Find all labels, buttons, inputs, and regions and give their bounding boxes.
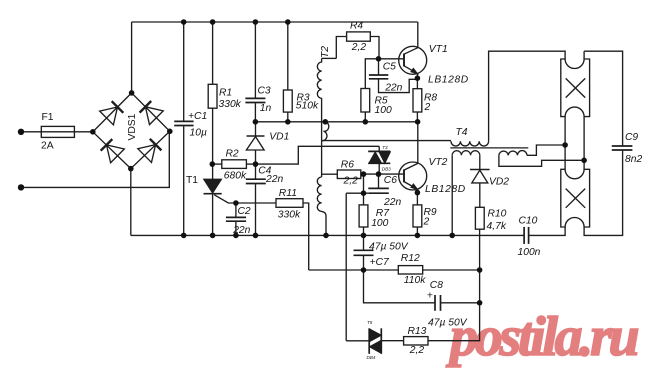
svg-text:22n: 22n	[383, 197, 401, 208]
diac T3	[368, 146, 390, 174]
resistor R8	[413, 78, 422, 122]
diode VD1	[246, 122, 264, 164]
wire VT2 base line	[364, 173, 405, 175]
svg-text:T5: T5	[367, 320, 373, 325]
svg-text:T4: T4	[456, 127, 468, 138]
wire VT1 collector drop	[417, 22, 419, 48]
svg-text:VD2: VD2	[489, 177, 509, 188]
svg-text:VD1: VD1	[269, 131, 289, 142]
resistor R5	[361, 59, 379, 122]
svg-text:DB3: DB3	[382, 166, 391, 171]
svg-text:+C7: +C7	[370, 257, 390, 268]
svg-text:22n: 22n	[265, 174, 283, 185]
wire VD1 node to diac T3	[256, 146, 380, 164]
transistor VT1	[379, 46, 427, 78]
capacitor C7	[354, 235, 374, 270]
transformer T4 winding B	[452, 151, 480, 156]
svg-text:100: 100	[375, 105, 392, 116]
transformer T2 top lead	[322, 57, 337, 59]
svg-text:C10: C10	[519, 215, 538, 226]
lamp filament box upper	[561, 59, 590, 117]
svg-text:VT2: VT2	[429, 157, 448, 168]
diode bridge top-right	[139, 100, 164, 125]
resistor R1	[208, 22, 217, 164]
wire lamp inner left	[564, 117, 566, 170]
svg-text:T2: T2	[320, 46, 331, 58]
wire winding C left to node B	[499, 155, 584, 166]
lamp filament box lower	[561, 169, 590, 227]
wire T4 winding B left to rail	[451, 155, 453, 235]
resistor R3	[283, 22, 292, 122]
wire winding C right to node A	[527, 145, 565, 155]
svg-text:R1: R1	[219, 87, 232, 98]
svg-text:+C1: +C1	[188, 111, 207, 122]
resistor R4	[336, 32, 379, 59]
wire input line 1	[23, 131, 93, 133]
wire T2 to T4 primary	[322, 140, 451, 142]
svg-text:C8: C8	[430, 280, 443, 291]
wire mid rail (C3 bottom to R8 bottom)	[255, 121, 417, 123]
svg-text:VT1: VT1	[429, 44, 448, 55]
resistor R11	[236, 199, 309, 270]
svg-text:C9: C9	[625, 132, 638, 143]
svg-text:R11: R11	[279, 188, 297, 199]
junction dots bottom rail	[181, 233, 187, 239]
wire C7 node line	[309, 269, 399, 271]
junction dot C7 bottom	[361, 267, 367, 273]
transformer T2 winding 3	[317, 177, 326, 235]
svg-text:R13: R13	[408, 326, 427, 337]
svg-text:330k: 330k	[219, 99, 242, 110]
capacitor C10	[524, 227, 529, 244]
junction dot VD1 node	[253, 161, 259, 167]
junction dot VT1 base	[376, 56, 382, 62]
svg-text:2,2: 2,2	[409, 345, 425, 356]
capacitor C2	[226, 203, 246, 235]
junction dots bridge vertices	[90, 129, 96, 135]
capacitor C8	[364, 270, 480, 311]
capacitor C3	[245, 22, 265, 122]
wire bottom rail	[131, 234, 524, 236]
svg-text:110k: 110k	[404, 275, 426, 286]
svg-text:22n: 22n	[384, 82, 402, 93]
diode bridge top-left	[100, 100, 125, 125]
junction dot VT1 emitter	[415, 75, 421, 81]
resistor R2	[212, 160, 255, 169]
svg-text:R4: R4	[350, 21, 363, 32]
diode bridge bottom-right	[138, 138, 163, 163]
wire lamp lower-left pin to C10	[529, 227, 566, 235]
resistor R13	[381, 337, 428, 345]
junction dot T1 gate node	[233, 200, 239, 206]
junction dots mid rail	[253, 119, 259, 125]
transformer T4 winding A	[451, 141, 489, 146]
junction dot lamp node A	[562, 142, 568, 148]
wire lamp inner right	[583, 117, 585, 170]
svg-text:22n: 22n	[232, 225, 250, 236]
svg-text:C5: C5	[383, 62, 396, 73]
svg-text:LB128D: LB128D	[428, 74, 469, 85]
terminal dot input 1	[18, 129, 24, 135]
svg-text:2: 2	[423, 217, 430, 228]
svg-text:VDS1: VDS1	[127, 113, 138, 140]
svg-text:T3: T3	[382, 145, 388, 150]
capacitor C1	[174, 22, 193, 235]
wire T4 winding B right to VD2	[479, 155, 481, 169]
svg-text:DB4: DB4	[367, 355, 376, 360]
junction dot VT2 emitter	[415, 190, 421, 196]
capacitor C5	[369, 59, 418, 93]
svg-text:100n: 100n	[518, 247, 541, 258]
bridge rectifier VDS1 diamond	[93, 93, 170, 169]
capacitor C4	[246, 164, 266, 235]
wire lamp loop top	[489, 51, 565, 141]
wire top rail	[132, 21, 418, 23]
svg-text:510k: 510k	[296, 101, 319, 112]
junction dots VT2 base nodes	[361, 171, 367, 177]
resistor R6	[322, 170, 364, 179]
svg-text:R12: R12	[401, 253, 420, 264]
svg-text:R6: R6	[341, 160, 354, 171]
transformer T4 winding C	[499, 151, 527, 156]
junction dot C8 right	[477, 300, 483, 306]
fuse F1	[41, 126, 74, 137]
resistor R12	[398, 266, 479, 274]
svg-text:4,7k: 4,7k	[487, 221, 507, 232]
junction dot C6 bottom node	[361, 190, 367, 196]
svg-text:R2: R2	[226, 149, 239, 160]
transistor VT2	[399, 122, 427, 193]
transformer T4 core	[450, 147, 528, 149]
junction dot lamp node B	[581, 158, 587, 164]
svg-text:2: 2	[424, 102, 431, 113]
terminal dot input 2	[18, 184, 24, 190]
svg-text:2,2: 2,2	[343, 175, 359, 186]
wire C6 bottom line	[346, 192, 368, 194]
wire T2 winding3 riser	[321, 141, 323, 177]
junction dot R12 right	[477, 267, 483, 273]
junction dot T1 anode node	[210, 161, 216, 167]
svg-text:C6: C6	[384, 175, 397, 186]
svg-text:R10: R10	[488, 209, 507, 220]
svg-text:C3: C3	[258, 86, 271, 97]
svg-text:2,2: 2,2	[351, 42, 367, 53]
resistor R10	[475, 207, 484, 229]
wire lamp top right to C9	[584, 51, 623, 146]
wire T5 riser	[345, 193, 347, 341]
svg-text:T1: T1	[186, 175, 198, 186]
svg-text:100: 100	[371, 218, 388, 229]
svg-text:2A: 2A	[41, 141, 54, 152]
diode bridge bottom-left	[100, 138, 125, 163]
svg-text:47µ 50V: 47µ 50V	[428, 318, 468, 329]
wire R6 node to C6 node	[363, 174, 365, 193]
resistor R9	[413, 193, 422, 236]
svg-text:F1: F1	[42, 112, 54, 123]
capacitor C6	[368, 174, 389, 193]
transformer T2 winding 1	[317, 58, 321, 140]
svg-text:+: +	[427, 291, 433, 302]
wire bridge bottom drop	[130, 169, 132, 236]
resistor R7	[359, 193, 368, 235]
transformer T2 winding 2	[322, 122, 329, 141]
svg-text:10µ: 10µ	[190, 127, 207, 138]
capacitor C9	[584, 146, 632, 235]
wire R10/R12/C8/R13 vertical	[428, 229, 480, 341]
diac T5	[346, 328, 381, 354]
svg-text:C2: C2	[238, 206, 251, 217]
svg-text:1n: 1n	[260, 103, 272, 114]
wire bridge top riser	[131, 22, 133, 93]
wire input line 2	[23, 131, 169, 187]
junction dots top rail	[181, 19, 187, 25]
svg-text:postila.ru: postila.ru	[446, 306, 639, 368]
svg-text:8n2: 8n2	[625, 154, 642, 165]
svg-text:LB128D: LB128D	[425, 184, 466, 195]
svg-text:330k: 330k	[278, 210, 301, 221]
diode VD2	[470, 170, 490, 208]
thyristor T1	[204, 164, 236, 235]
svg-text:47µ 50V: 47µ 50V	[369, 242, 409, 253]
svg-text:680k: 680k	[224, 170, 247, 181]
